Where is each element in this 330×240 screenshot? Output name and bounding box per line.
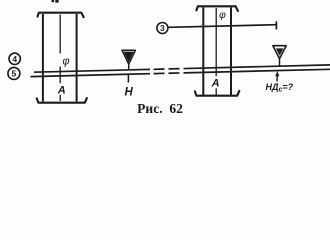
svg-text:φ: φ [219, 9, 226, 21]
svg-text:φ: φ [62, 55, 69, 67]
svg-text:A: A [211, 78, 220, 90]
cut-off text marks at top above left tube [52, 0, 55, 2]
left tube left wall [42, 14, 44, 102]
stem of left water symbol [128, 64, 130, 70]
right tube left wall [202, 8, 204, 96]
svg-text:5: 5 [12, 69, 17, 79]
circled 5 [8, 67, 20, 79]
left tube bottom cap [37, 98, 87, 103]
water-table symbol left (triangle) [122, 50, 135, 64]
up arrow below line at right [276, 74, 278, 82]
svg-text:Рис. 62: Рис. 62 [137, 101, 183, 116]
svg-text:3: 3 [160, 23, 165, 33]
right tube top cap [196, 6, 238, 11]
svg-text:H: H [124, 87, 133, 99]
leader line from circled 3 [168, 25, 276, 28]
left tube center line [59, 15, 61, 102]
right tube center line [215, 8, 217, 95]
svg-text:4: 4 [12, 54, 17, 64]
water-table symbol right (triangle) [273, 46, 286, 59]
tick below line at H [127, 74, 129, 82]
circled 3 [157, 23, 168, 34]
right tube bottom cap [195, 91, 239, 96]
ground line lower (solid-dashed-solid) [31, 74, 151, 77]
stem of right water symbol [279, 58, 281, 66]
circled 4 [9, 53, 20, 64]
svg-text:A: A [57, 85, 66, 97]
left tube right wall [76, 14, 78, 102]
leader end tick [275, 21, 277, 29]
right tube right wall [230, 8, 232, 96]
ground line upper (solid-dashed-solid) [34, 69, 150, 72]
left tube top cap [38, 13, 84, 18]
